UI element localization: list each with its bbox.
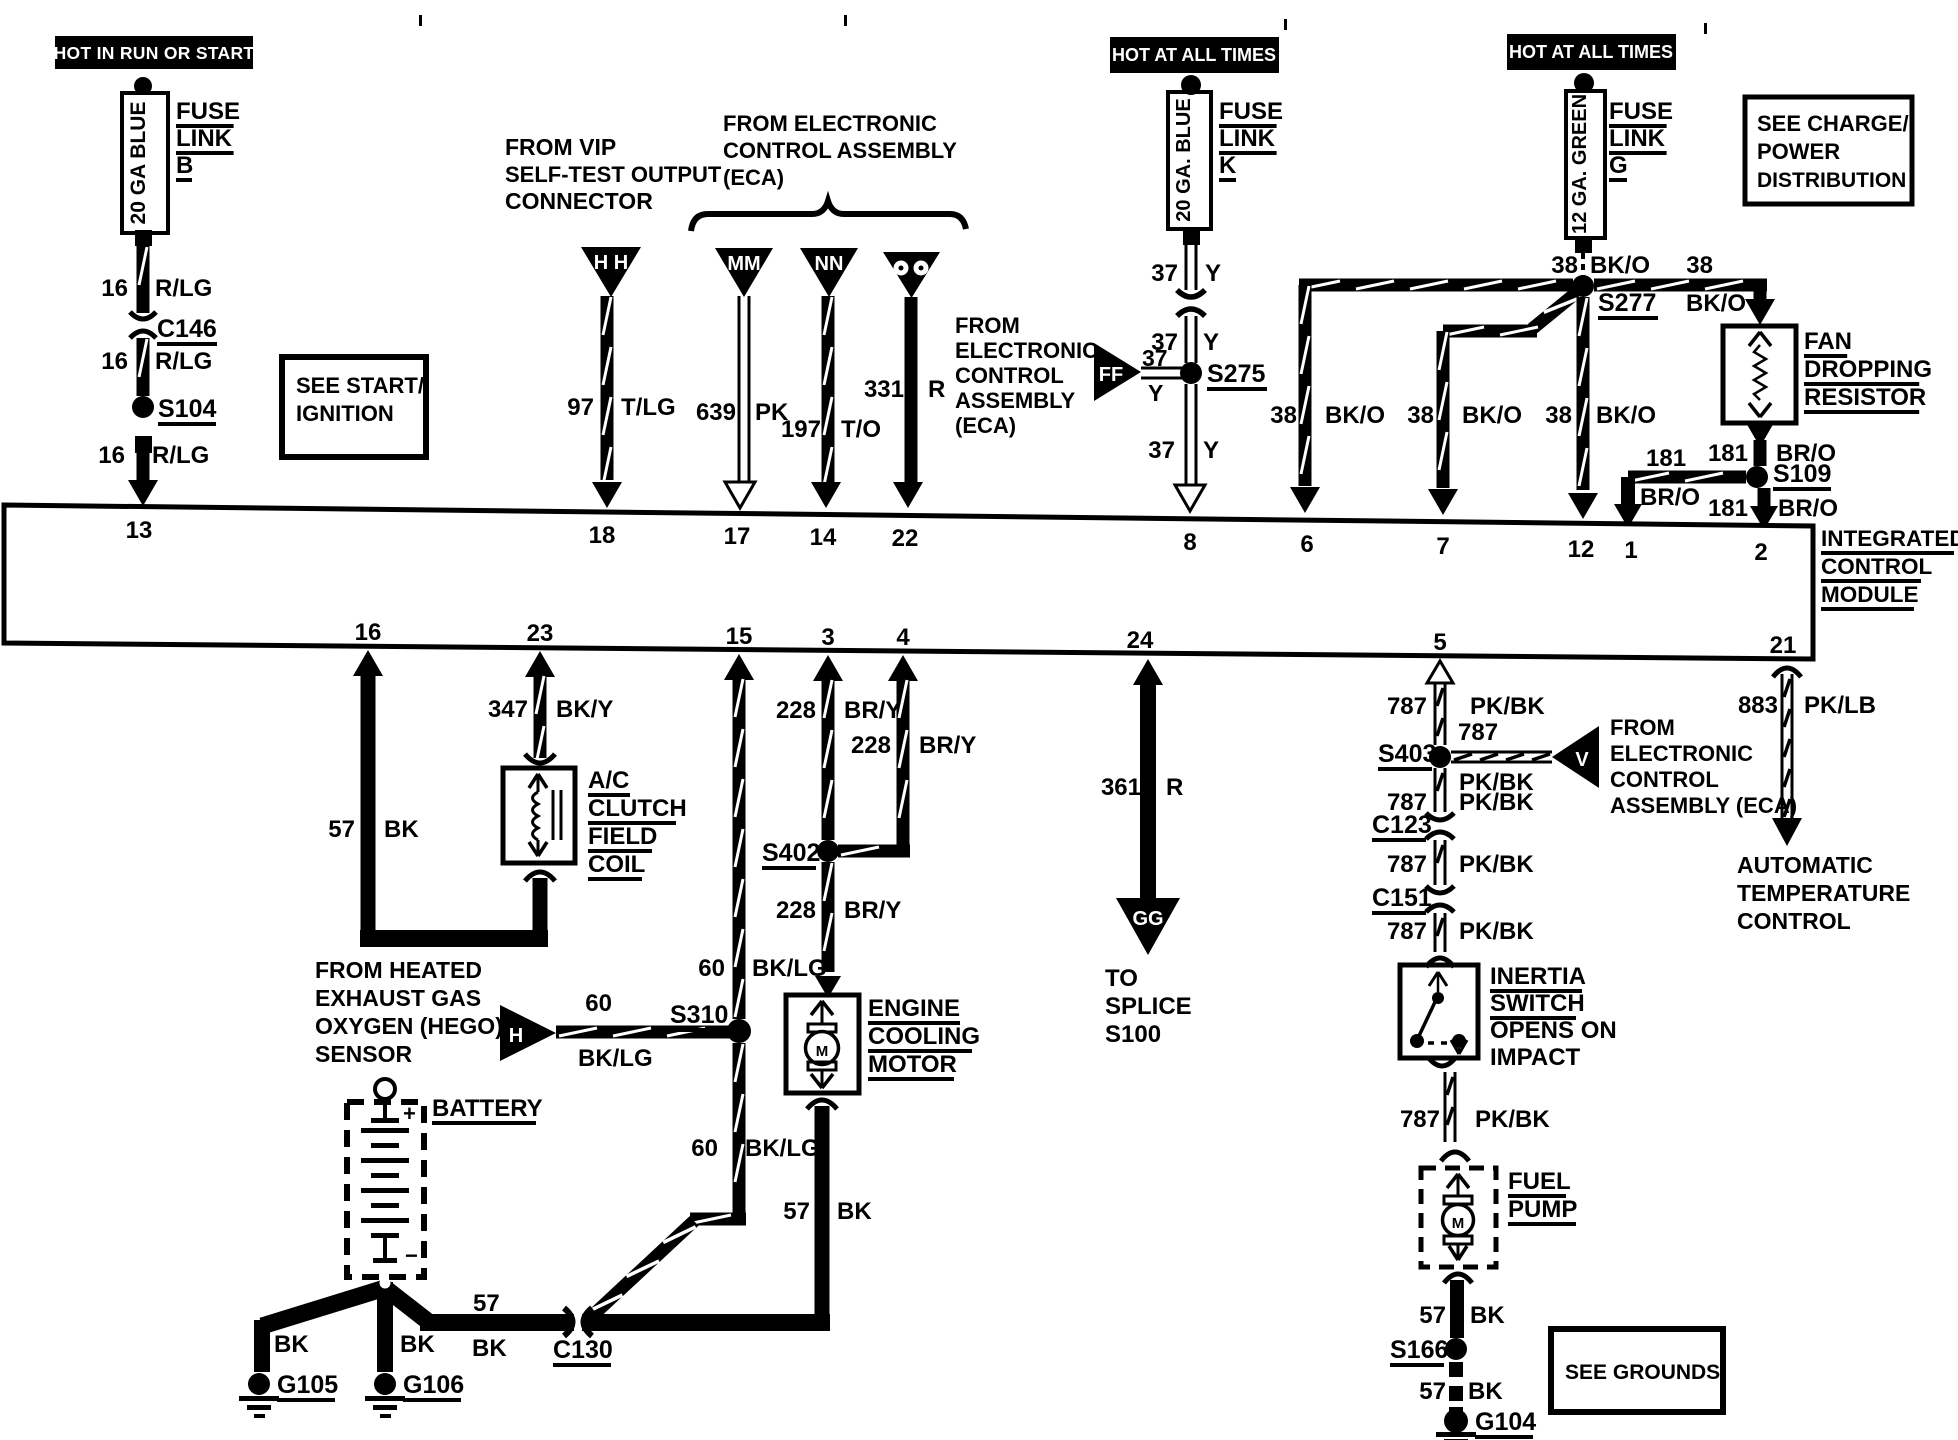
wire 228 BR/Y to engine cooling motor (776, 862, 901, 998)
svg-text:57: 57 (1419, 1378, 1446, 1405)
svg-text:97: 97 (567, 394, 594, 421)
svg-text:T/LG: T/LG (621, 394, 676, 421)
power label HOT AT ALL TIMES (fuse K) (1110, 37, 1279, 73)
fuse link B (20 GA BLUE) (122, 77, 168, 246)
splice S277 (1572, 275, 1658, 320)
svg-text:FF: FF (1099, 364, 1123, 386)
svg-text:787: 787 (1458, 719, 1498, 746)
connector V (1552, 726, 1599, 788)
wire 57 BK below fuel pump (1419, 1274, 1505, 1338)
svg-text:16: 16 (98, 442, 125, 469)
svg-text:R: R (1166, 774, 1183, 801)
svg-text:PK/BK: PK/BK (1470, 693, 1545, 720)
svg-text:G105: G105 (277, 1371, 338, 1399)
svg-text:FIELD: FIELD (588, 823, 657, 850)
svg-text:R: R (928, 376, 945, 403)
connector C151 (1372, 884, 1454, 915)
svg-text:S104: S104 (158, 395, 216, 423)
svg-text:57: 57 (1419, 1302, 1446, 1329)
svg-text:INTEGRATED: INTEGRATED (1821, 526, 1958, 551)
svg-text:BK/O: BK/O (1590, 252, 1650, 279)
svg-text:12 GA. GREEN: 12 GA. GREEN (1569, 94, 1591, 234)
wire 331 R into pin 22 (864, 297, 945, 508)
svg-text:CONTROL ASSEMBLY: CONTROL ASSEMBLY (723, 138, 957, 163)
wire 228 BR/Y from pin 3 (776, 655, 901, 840)
note box SEE GROUNDS (1551, 1329, 1723, 1412)
svg-text:5: 5 (1433, 629, 1446, 656)
svg-text:181: 181 (1708, 495, 1748, 522)
svg-text:SEE START/: SEE START/ (296, 373, 424, 398)
wire 57 BK battery to motor junction (420, 1290, 830, 1362)
svg-text:2: 2 (1754, 539, 1767, 566)
svg-text:17: 17 (724, 523, 751, 550)
wire 228 BR/Y from pin 4 (838, 655, 976, 858)
connector break on 37 Y wire (1177, 290, 1205, 316)
connector FF (1094, 343, 1141, 401)
svg-text:SWITCH: SWITCH (1490, 990, 1585, 1017)
wire BK to ground G105 (254, 1320, 309, 1372)
connector MM (715, 248, 773, 297)
svg-text:CLUTCH: CLUTCH (588, 795, 687, 822)
wire below A/C coil to junction (525, 872, 555, 947)
wire 57 BK below motor (783, 1100, 872, 1331)
svg-text:BK: BK (837, 1198, 872, 1225)
svg-text:AUTOMATIC: AUTOMATIC (1737, 852, 1873, 878)
svg-text:IGNITION: IGNITION (296, 401, 394, 426)
svg-text:787: 787 (1400, 1106, 1440, 1133)
svg-text:C146: C146 (157, 315, 217, 343)
svg-text:Y: Y (1203, 437, 1219, 464)
svg-text:G106: G106 (403, 1371, 464, 1399)
power label HOT IN RUN OR START (54, 36, 255, 69)
svg-text:MODULE: MODULE (1821, 582, 1919, 607)
splice S403 (1378, 740, 1451, 771)
svg-text:ASSEMBLY (ECA): ASSEMBLY (ECA) (1610, 793, 1797, 818)
wire 787 PK/BK to C151 (1387, 840, 1534, 885)
text FROM ELECTRONIC CONTROL ASSEMBLY (ECA) at FF (955, 313, 1098, 438)
svg-text:BK: BK (274, 1331, 309, 1358)
svg-text:7: 7 (1436, 533, 1449, 560)
wire 38 BK/O to fan dropping resistor (1594, 252, 1775, 325)
svg-text:361: 361 (1101, 774, 1141, 801)
svg-text:SELF-TEST OUTPUT: SELF-TEST OUTPUT (505, 162, 722, 187)
svg-text:CONNECTOR: CONNECTOR (505, 188, 653, 214)
svg-text:C151: C151 (1372, 884, 1432, 912)
svg-text:13: 13 (126, 517, 153, 544)
svg-text:OXYGEN (HEGO): OXYGEN (HEGO) (315, 1013, 503, 1039)
svg-text:197: 197 (781, 416, 821, 443)
page tick marks (419, 15, 1707, 34)
svg-text:PK/BK: PK/BK (1459, 918, 1534, 945)
svg-text:228: 228 (776, 697, 816, 724)
wire 38 BK/O to pin 12 (1545, 297, 1656, 519)
note box SEE START/IGNITION (282, 357, 426, 457)
battery B1 (347, 1079, 543, 1277)
svg-text:H: H (509, 1025, 523, 1047)
svg-text:181: 181 (1708, 440, 1748, 467)
splice S104 (132, 395, 216, 426)
svg-text:787: 787 (1387, 851, 1427, 878)
fuse link G (12 GA. GREEN) (1566, 73, 1605, 253)
svg-text:228: 228 (776, 897, 816, 924)
svg-text:FROM ELECTRONIC: FROM ELECTRONIC (723, 111, 937, 136)
svg-text:22: 22 (892, 525, 919, 552)
svg-text:TO: TO (1105, 965, 1138, 992)
svg-text:ASSEMBLY: ASSEMBLY (955, 388, 1076, 413)
svg-text:FUSE: FUSE (1219, 98, 1283, 125)
svg-text:BR/O: BR/O (1640, 484, 1700, 511)
svg-text:8: 8 (1183, 529, 1196, 556)
svg-text:FROM VIP: FROM VIP (505, 134, 616, 160)
integrated control module U1 (4, 505, 1958, 659)
svg-text:(ECA): (ECA) (955, 413, 1016, 438)
splice S109 (1746, 460, 1831, 491)
power label HOT AT ALL TIMES (fuse G) (1507, 34, 1676, 70)
svg-text:BK: BK (1468, 1378, 1503, 1405)
connector HH (581, 247, 641, 297)
svg-text:18: 18 (589, 522, 616, 549)
svg-text:FROM: FROM (1610, 715, 1675, 740)
svg-text:SPLICE: SPLICE (1105, 993, 1192, 1020)
svg-text:20 GA BLUE: 20 GA BLUE (127, 102, 150, 225)
svg-text:Y: Y (1148, 380, 1163, 406)
wire 97 T/LG into pin 18 (567, 296, 675, 508)
svg-text:FUEL: FUEL (1508, 1168, 1571, 1195)
svg-text:−: − (405, 1243, 418, 1268)
inertia switch S1 (1400, 963, 1617, 1071)
splice S402 (762, 839, 839, 870)
svg-text:23: 23 (527, 620, 554, 647)
svg-text:BK/LG: BK/LG (752, 955, 827, 982)
ground G104 (1436, 1408, 1536, 1440)
text FROM HEATED EXHAUST GAS OXYGEN (HEGO) SENSOR (315, 957, 503, 1067)
svg-text:SENSOR: SENSOR (315, 1041, 413, 1067)
wire 37 Y segment 2 (1151, 316, 1219, 363)
svg-text:38: 38 (1545, 402, 1572, 429)
svg-text:BK/Y: BK/Y (556, 696, 613, 723)
svg-text:ELECTRONIC: ELECTRONIC (1610, 741, 1753, 766)
svg-text:BR/Y: BR/Y (844, 897, 901, 924)
connector C123 (1372, 811, 1454, 842)
splice S310 (670, 1001, 751, 1043)
engine cooling motor (786, 995, 980, 1093)
svg-text:24: 24 (1127, 627, 1154, 654)
svg-text:BR/O: BR/O (1778, 495, 1838, 522)
wire 37 Y from FF to S275 (1141, 345, 1182, 406)
svg-text:FUSE: FUSE (1609, 98, 1673, 125)
ground G106 (365, 1371, 464, 1418)
battery ground junction (262, 1278, 430, 1373)
svg-text:PUMP: PUMP (1508, 1196, 1577, 1223)
wire 197 T/O into pin 14 (781, 296, 881, 508)
text AUTOMATIC TEMPERATURE CONTROL (1737, 852, 1910, 934)
svg-text:FUSE: FUSE (176, 98, 240, 125)
wire 60 BK/LG from pin 15 to C130 (590, 654, 827, 1316)
svg-text:347: 347 (488, 696, 528, 723)
svg-text:INERTIA: INERTIA (1490, 963, 1586, 990)
fan dropping resistor (1723, 326, 1932, 423)
svg-text:16: 16 (355, 619, 382, 646)
note box SEE CHARGE/POWER DISTRIBUTION (1745, 97, 1912, 204)
svg-text:COIL: COIL (588, 851, 645, 878)
svg-text:38: 38 (1686, 252, 1713, 279)
svg-text:38: 38 (1407, 402, 1434, 429)
svg-text:HOT IN RUN OR START: HOT IN RUN OR START (54, 43, 255, 63)
svg-text:H H: H H (594, 252, 628, 274)
svg-text:BK: BK (384, 816, 419, 843)
svg-text:15: 15 (726, 623, 753, 650)
text FROM ELECTRONIC CONTROL ASSEMBLY (ECA) (723, 111, 957, 190)
wire 37 Y segment 1 (1151, 245, 1221, 290)
svg-text:60: 60 (698, 955, 725, 982)
svg-text:BK/LG: BK/LG (578, 1045, 653, 1072)
label FUSE LINK G (1609, 98, 1673, 182)
svg-text:FAN: FAN (1804, 328, 1852, 355)
svg-text:TEMPERATURE: TEMPERATURE (1737, 880, 1910, 906)
svg-text:BK: BK (400, 1331, 435, 1358)
svg-text:S402: S402 (762, 839, 820, 867)
svg-text:BK/O: BK/O (1325, 402, 1385, 429)
svg-text:HOT AT ALL TIMES: HOT AT ALL TIMES (1112, 45, 1276, 65)
svg-text:ENGINE: ENGINE (868, 995, 960, 1022)
svg-text:R/LG: R/LG (155, 348, 212, 375)
svg-text:60: 60 (691, 1135, 718, 1162)
svg-text:CONTROL: CONTROL (955, 363, 1064, 388)
svg-text:A/C: A/C (588, 767, 629, 794)
svg-text:57: 57 (473, 1290, 500, 1317)
svg-text:COOLING: COOLING (868, 1023, 980, 1050)
svg-text:16: 16 (101, 348, 128, 375)
svg-text:S275: S275 (1207, 360, 1265, 388)
wire 60 BK/LG from H to S310 (556, 990, 730, 1072)
brace over ECA connectors (691, 201, 966, 231)
svg-text:20 GA. BLUE: 20 GA. BLUE (1173, 98, 1195, 221)
svg-text:C130: C130 (553, 1336, 613, 1364)
label FUSE LINK B (176, 98, 240, 182)
svg-text:MM: MM (727, 253, 760, 275)
svg-text:6: 6 (1300, 531, 1313, 558)
svg-text:RESISTOR: RESISTOR (1804, 384, 1926, 411)
svg-text:FROM HEATED: FROM HEATED (315, 957, 482, 983)
svg-text:BK/LG: BK/LG (745, 1135, 820, 1162)
svg-text:PK/LB: PK/LB (1804, 692, 1876, 719)
svg-text:SEE GROUNDS: SEE GROUNDS (1565, 1361, 1720, 1384)
svg-text:639: 639 (696, 399, 736, 426)
svg-text:LINK: LINK (176, 125, 233, 152)
svg-text:Y: Y (1205, 260, 1221, 287)
svg-text:1: 1 (1624, 537, 1637, 564)
ground G105 (239, 1371, 338, 1418)
svg-text:M: M (1452, 1215, 1465, 1232)
svg-text:331: 331 (864, 376, 904, 403)
svg-text:BATTERY: BATTERY (432, 1095, 543, 1122)
svg-text:G: G (1609, 152, 1628, 179)
svg-text:BR/Y: BR/Y (844, 697, 901, 724)
svg-text:CONTROL: CONTROL (1610, 767, 1719, 792)
svg-text:PK/BK: PK/BK (1459, 789, 1534, 816)
svg-text:BK/O: BK/O (1596, 402, 1656, 429)
svg-text:PK/BK: PK/BK (1475, 1106, 1550, 1133)
wire 787 PK/BK to C123 (1387, 768, 1534, 816)
wire 16 R/LG segment 3 into pin 13 (98, 436, 209, 506)
svg-text:M: M (816, 1043, 829, 1060)
connector OO (883, 252, 940, 298)
svg-text:CONTROL: CONTROL (1821, 554, 1932, 579)
wire 181 BR/O below resistor (1708, 421, 1836, 467)
connector C146 (130, 312, 217, 346)
wire BK to ground G106 (400, 1331, 435, 1358)
wire 181 BR/O to pin 2 (1708, 488, 1838, 530)
splice S166 (1390, 1336, 1467, 1367)
fuse link K (20 GA. BLUE) (1168, 75, 1211, 245)
svg-text:21: 21 (1770, 632, 1797, 659)
svg-text:DISTRIBUTION: DISTRIBUTION (1757, 169, 1906, 192)
svg-text:57: 57 (328, 816, 355, 843)
wire 347 BK/Y from pin 23 (488, 651, 613, 764)
wire 38 BK/O to pin 7 (1407, 293, 1577, 515)
connector H (500, 1005, 556, 1061)
svg-text:BK: BK (1470, 1302, 1505, 1329)
svg-text:IMPACT: IMPACT (1490, 1044, 1581, 1071)
svg-text:14: 14 (810, 524, 837, 551)
svg-text:POWER: POWER (1757, 139, 1840, 164)
svg-text:4: 4 (896, 624, 910, 651)
svg-text:S166: S166 (1390, 1336, 1448, 1364)
svg-text:38: 38 (1551, 252, 1578, 279)
wire 38 BK/O stub below fuse G (1551, 252, 1650, 279)
svg-text:883: 883 (1738, 692, 1778, 719)
fuel pump M1 (1421, 1168, 1577, 1267)
connector C130 (553, 1308, 613, 1367)
wire 787 from S403 to V (1451, 719, 1552, 796)
svg-text:GG: GG (1132, 908, 1163, 930)
svg-text:16: 16 (101, 275, 128, 302)
svg-text:MOTOR: MOTOR (868, 1051, 957, 1078)
connector GG arrow (1116, 898, 1180, 955)
wire 57 BK from pin 16 (328, 650, 548, 947)
svg-text:Y: Y (1203, 329, 1219, 356)
text FROM VIP SELF-TEST OUTPUT CONNECTOR (505, 134, 722, 214)
svg-text:LINK: LINK (1609, 125, 1666, 152)
svg-text:S277: S277 (1598, 289, 1656, 317)
svg-text:OPENS ON: OPENS ON (1490, 1017, 1617, 1044)
wire 787 PK/BK to fuel pump (1400, 1057, 1550, 1161)
svg-text:BK/O: BK/O (1686, 290, 1746, 317)
svg-text:K: K (1219, 152, 1237, 179)
svg-text:G104: G104 (1475, 1408, 1536, 1436)
svg-text:BR/Y: BR/Y (919, 732, 976, 759)
svg-text:NN: NN (815, 253, 844, 275)
svg-text:228: 228 (851, 732, 891, 759)
svg-text:37: 37 (1142, 345, 1168, 371)
splice S275 (1180, 360, 1267, 391)
wire 787 PK/BK to inertia switch (1387, 913, 1534, 967)
svg-text:EXHAUST GAS: EXHAUST GAS (315, 985, 481, 1011)
svg-text:SEE CHARGE/: SEE CHARGE/ (1757, 111, 1909, 136)
wire 787 PK/BK from pin 5 (1387, 661, 1545, 745)
svg-text:787: 787 (1387, 693, 1427, 720)
wire 181 BR/O to pin 1 (1614, 445, 1746, 528)
wire 37 Y segment 3 into pin 8 (1148, 384, 1219, 511)
wire 883 PK/LB from pin 21 (1738, 668, 1876, 846)
svg-text:CONTROL: CONTROL (1737, 908, 1851, 934)
svg-text:787: 787 (1387, 918, 1427, 945)
svg-text:37: 37 (1148, 437, 1175, 464)
svg-text:181: 181 (1646, 445, 1686, 472)
text TO SPLICE S100 (1105, 965, 1192, 1048)
wire 57 BK dashed to G104 (1419, 1362, 1503, 1415)
svg-text:FROM: FROM (955, 313, 1020, 338)
wire 16 R/LG segment 2 (101, 338, 212, 396)
wire 38 BK/O to pin 6 (1270, 279, 1573, 514)
svg-text:(ECA): (ECA) (723, 165, 784, 190)
svg-text:12: 12 (1568, 536, 1595, 563)
svg-text:LINK: LINK (1219, 125, 1276, 152)
svg-text:HOT AT ALL TIMES: HOT AT ALL TIMES (1509, 42, 1673, 62)
wire 16 R/LG segment 1 (101, 246, 212, 313)
label FUSE LINK K (1219, 98, 1283, 182)
svg-text:C123: C123 (1372, 811, 1432, 839)
svg-text:V: V (1575, 749, 1589, 771)
svg-text:DROPPING: DROPPING (1804, 356, 1932, 383)
svg-text:38: 38 (1270, 402, 1297, 429)
svg-text:+: + (403, 1101, 416, 1126)
svg-text:R/LG: R/LG (152, 442, 209, 469)
svg-text:37: 37 (1151, 260, 1178, 287)
svg-text:S403: S403 (1378, 740, 1436, 768)
svg-text:PK/BK: PK/BK (1459, 851, 1534, 878)
svg-text:S100: S100 (1105, 1021, 1161, 1048)
connector NN (800, 248, 858, 297)
A/C clutch field coil (503, 754, 687, 881)
svg-text:R/LG: R/LG (155, 275, 212, 302)
wire 361 R from pin 24 (1101, 659, 1183, 900)
svg-text:57: 57 (783, 1198, 810, 1225)
svg-text:S109: S109 (1773, 460, 1831, 488)
svg-text:BK: BK (472, 1335, 507, 1362)
svg-text:S310: S310 (670, 1001, 728, 1029)
wire 639 PK into pin 17 (696, 296, 789, 508)
text FROM ELECTRONIC CONTROL ASSEMBLY (ECA) at V (1610, 715, 1797, 818)
svg-text:ELECTRONIC: ELECTRONIC (955, 338, 1098, 363)
svg-text:60: 60 (585, 990, 612, 1017)
svg-text:BK/O: BK/O (1462, 402, 1522, 429)
svg-text:3: 3 (821, 624, 834, 651)
svg-text:B: B (176, 152, 193, 179)
svg-text:T/O: T/O (841, 416, 881, 443)
